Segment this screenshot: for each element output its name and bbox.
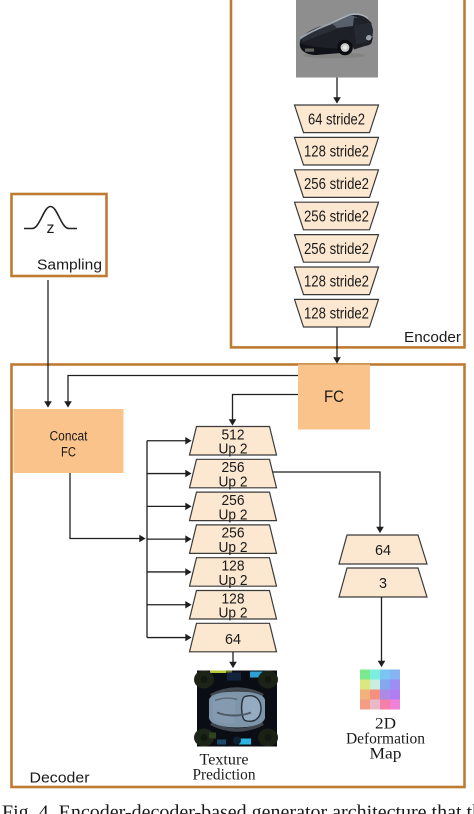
arrow bus to deconv7: [147, 637, 186, 639]
decoder deconv4 256 Up 2: [190, 525, 277, 556]
arrow deconv7 to texture image: [232, 652, 234, 663]
arrow car to conv1: [336, 78, 338, 99]
texture prediction image: [194, 671, 278, 747]
svg-text:64: 64: [375, 542, 391, 559]
svg-text:Encoder: Encoder: [404, 329, 461, 346]
svg-text:Up 2: Up 2: [219, 572, 248, 589]
svg-text:Up 2: Up 2: [219, 539, 248, 556]
svg-text:Concat: Concat: [50, 429, 88, 444]
svg-text:Up 2: Up 2: [219, 506, 248, 523]
encoder conv7 128 stride2: [295, 299, 379, 327]
wire FC to ConcatFC: [68, 376, 298, 403]
encoder conv1 64 stride2: [295, 105, 379, 133]
input car image: [296, 0, 378, 78]
decoder deconv7 64: [190, 623, 277, 652]
encoder conv4 256 stride2: [295, 202, 379, 230]
encoder conv6 128 stride2: [295, 267, 379, 295]
svg-text:256 stride2: 256 stride2: [304, 176, 369, 193]
svg-text:64 stride2: 64 stride2: [308, 111, 365, 128]
arrow bus to deconv6: [147, 604, 186, 606]
svg-text:Map: Map: [370, 746, 402, 763]
decoder deconv3 256 Up 2: [190, 492, 277, 523]
encoder conv5 256 stride2: [295, 235, 379, 263]
arrow bus to deconv5: [147, 571, 186, 573]
arrow bus to deconv3: [147, 505, 186, 507]
svg-text:FC: FC: [61, 445, 76, 460]
svg-text:Decoder: Decoder: [30, 770, 90, 787]
svg-text:128 stride2: 128 stride2: [304, 273, 369, 290]
decoder deconv5 128 Up 2: [190, 558, 277, 589]
svg-text:Up 2: Up 2: [219, 605, 248, 622]
arrow conv7 to FC: [336, 327, 338, 358]
bus vertical line: [146, 441, 148, 638]
svg-text:256 stride2: 256 stride2: [304, 209, 369, 226]
svg-text:Sampling: Sampling: [37, 257, 102, 274]
svg-text:Prediction: Prediction: [193, 767, 256, 784]
gaussian curve: [24, 207, 77, 229]
FC box: [298, 365, 370, 430]
wire deconv2 to deformation branch: [273, 472, 381, 528]
decoder deconv2 256 Up 2: [190, 459, 277, 490]
arrow bus to deconv4: [147, 538, 186, 540]
arrow bus to deconv1: [147, 440, 186, 442]
svg-text:128 stride2: 128 stride2: [304, 306, 369, 323]
encoder conv2 128 stride2: [295, 137, 379, 165]
decoder deconv1 512 Up 2: [190, 426, 277, 457]
svg-text:Up 2: Up 2: [219, 474, 248, 491]
svg-text:256 stride2: 256 stride2: [304, 241, 369, 258]
wire FC to deconv1: [233, 395, 299, 421]
svg-text:z: z: [47, 220, 55, 237]
2D deformation map image: [360, 670, 400, 710]
svg-text:Fig. 4. Encoder-decoder-based: Fig. 4. Encoder-decoder-based generator …: [2, 802, 474, 814]
arrow conv3 to deformation map: [381, 597, 383, 662]
encoder conv3 256 stride2: [295, 170, 379, 198]
deformation conv 3: [339, 568, 427, 597]
arrow Sampling to ConcatFC: [47, 280, 49, 402]
svg-text:3: 3: [379, 575, 387, 592]
sampling box: [12, 194, 107, 276]
decoder deconv6 128 Up 2: [190, 590, 277, 621]
arrow bus to deconv2: [147, 473, 186, 475]
deformation conv 64: [339, 535, 427, 564]
wire ConcatFC to bus: [70, 473, 140, 539]
svg-text:Up 2: Up 2: [219, 441, 248, 458]
encoder box: [231, 0, 465, 347]
svg-text:FC: FC: [324, 388, 344, 406]
concat FC box: [14, 409, 124, 473]
svg-text:128 stride2: 128 stride2: [304, 144, 369, 161]
decoder box: [12, 365, 465, 788]
svg-text:64: 64: [225, 631, 241, 648]
